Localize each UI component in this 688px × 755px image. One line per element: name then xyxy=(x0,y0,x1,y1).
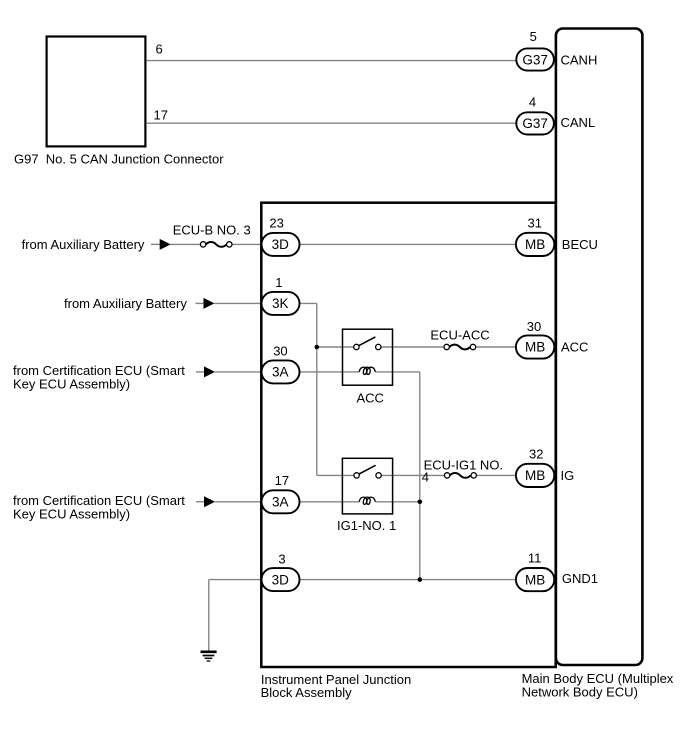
svg-text:Key ECU Assembly): Key ECU Assembly) xyxy=(13,377,130,392)
svg-text:MB: MB xyxy=(525,468,545,483)
svg-text:1: 1 xyxy=(275,275,282,290)
svg-text:ECU-IG1 NO.: ECU-IG1 NO. xyxy=(424,457,503,472)
svg-text:ECU-B NO. 3: ECU-B NO. 3 xyxy=(173,223,251,238)
svg-text:30: 30 xyxy=(273,343,287,358)
svg-text:CANL: CANL xyxy=(561,115,596,130)
svg-text:31: 31 xyxy=(528,215,542,230)
svg-text:17: 17 xyxy=(154,108,168,123)
svg-text:6: 6 xyxy=(156,42,163,57)
svg-text:MB: MB xyxy=(525,237,545,252)
svg-text:G37: G37 xyxy=(522,52,548,67)
svg-text:ACC: ACC xyxy=(357,390,384,405)
svg-text:GND1: GND1 xyxy=(562,571,598,586)
svg-text:4: 4 xyxy=(529,95,536,110)
svg-text:17: 17 xyxy=(275,473,289,488)
svg-text:4: 4 xyxy=(422,470,429,485)
svg-text:Block Assembly: Block Assembly xyxy=(261,685,353,700)
svg-text:ACC: ACC xyxy=(561,340,588,355)
svg-text:23: 23 xyxy=(269,215,283,230)
svg-text:G97 No. 5 CAN Junction Connec: G97 No. 5 CAN Junction Connector xyxy=(14,152,224,167)
svg-text:MB: MB xyxy=(525,572,545,587)
svg-text:3A: 3A xyxy=(272,495,289,510)
svg-text:BECU: BECU xyxy=(562,237,598,252)
svg-text:3: 3 xyxy=(278,551,285,566)
svg-text:Key ECU Assembly): Key ECU Assembly) xyxy=(13,506,130,521)
svg-text:3D: 3D xyxy=(272,572,290,587)
svg-text:3K: 3K xyxy=(272,296,289,311)
svg-text:G37: G37 xyxy=(522,116,548,131)
svg-text:from Auxiliary Battery: from Auxiliary Battery xyxy=(64,296,187,311)
svg-text:32: 32 xyxy=(529,447,543,462)
svg-text:MB: MB xyxy=(525,340,545,355)
svg-text:3D: 3D xyxy=(272,237,290,252)
svg-text:Network Body ECU): Network Body ECU) xyxy=(522,684,638,699)
svg-text:IG: IG xyxy=(561,468,575,483)
svg-text:11: 11 xyxy=(528,550,542,565)
svg-text:IG1-NO. 1: IG1-NO. 1 xyxy=(337,518,396,533)
svg-text:3A: 3A xyxy=(272,365,289,380)
svg-text:CANH: CANH xyxy=(561,53,598,68)
svg-text:from Auxiliary Battery: from Auxiliary Battery xyxy=(22,237,145,252)
svg-text:ECU-ACC: ECU-ACC xyxy=(430,327,489,342)
svg-text:5: 5 xyxy=(530,29,537,44)
svg-text:30: 30 xyxy=(527,319,541,334)
